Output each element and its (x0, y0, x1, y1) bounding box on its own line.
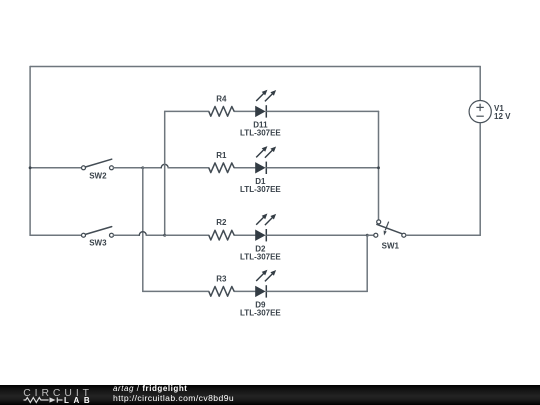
wire D1 right (267, 167, 379, 169)
svg-text:R1: R1 (216, 151, 227, 160)
wire R4 to D11 (234, 110, 255, 112)
LED D2 (255, 214, 276, 242)
node junction branch2 right (377, 166, 380, 169)
wire SW3 row to junction (146, 234, 164, 236)
LED D11 (255, 90, 276, 118)
switch SW2 (82, 159, 114, 170)
node junction branch3 left (163, 234, 166, 237)
svg-text:LTL-307EE: LTL-307EE (240, 129, 281, 138)
wire D11 right (267, 110, 379, 112)
wire branch3 to resistor (165, 234, 209, 236)
resistor R1 (209, 163, 234, 173)
svg-text:SW1: SW1 (382, 241, 400, 250)
logo resistor squiggle (24, 397, 63, 402)
wire hop SW3 row over vertical (139, 232, 146, 235)
wire D9 right (267, 290, 367, 292)
node junction SW2 branch4 (141, 166, 144, 169)
wire SW2 to junction (114, 167, 143, 169)
resistor R4 (209, 107, 234, 117)
wire SW2 row left (30, 167, 81, 169)
resistor R2 (209, 230, 234, 240)
wire vertical branch1 to branch3 junction (164, 111, 166, 235)
svg-text:LTL-307EE: LTL-307EE (240, 309, 281, 318)
node junction branch3 branch4 (366, 234, 369, 237)
LED D9 (255, 270, 276, 298)
wire SW1 right to V1 bottom (406, 234, 480, 236)
wire hop branch2 over vertical (161, 164, 168, 168)
wire branch4 left (143, 290, 209, 292)
wire branch1 left (165, 110, 209, 112)
wire R3 to D9 (234, 290, 255, 292)
svg-text:12 V: 12 V (494, 112, 511, 121)
LED D1 (255, 146, 276, 174)
footer text (113, 385, 234, 403)
svg-text:LTL-307EE: LTL-307EE (240, 185, 281, 194)
switch SW1 actuator arrowhead (384, 231, 387, 236)
svg-text:R2: R2 (216, 218, 227, 227)
switch SW1 (374, 220, 406, 237)
svg-text:LAB: LAB (64, 396, 94, 405)
logo diode (50, 397, 56, 402)
wire right vertical branch1 to SW1 top (378, 111, 380, 219)
wire junction to SW1 left terminal (367, 234, 374, 236)
wire branch2 left segment (143, 167, 161, 169)
svg-text:LTL-307EE: LTL-307EE (240, 252, 281, 261)
wire R2 to D2 (234, 234, 255, 236)
wire left vertical (29, 67, 31, 236)
svg-text:SW3: SW3 (89, 239, 107, 248)
wire SW3 row left (30, 234, 81, 236)
svg-text:R3: R3 (216, 274, 227, 283)
svg-text:R4: R4 (216, 94, 227, 103)
wire V1 top stub (479, 67, 481, 101)
switch SW3 (82, 227, 114, 238)
wire branch2 to resistor (168, 167, 209, 169)
node junction left (29, 166, 32, 169)
wire SW3 right segment (114, 234, 140, 236)
footer bar (0, 385, 540, 405)
voltage source V1 (469, 101, 491, 123)
svg-text:SW2: SW2 (89, 171, 107, 180)
wire top horizontal (30, 66, 480, 68)
wire R1 to D1 (234, 167, 255, 169)
CircuitLab logo (0, 385, 112, 405)
wire D2 right (267, 234, 367, 236)
wire vertical SW2 junction to branch4 (142, 168, 144, 292)
wire branch4 right vertical (366, 235, 368, 291)
resistor R3 (209, 287, 234, 297)
